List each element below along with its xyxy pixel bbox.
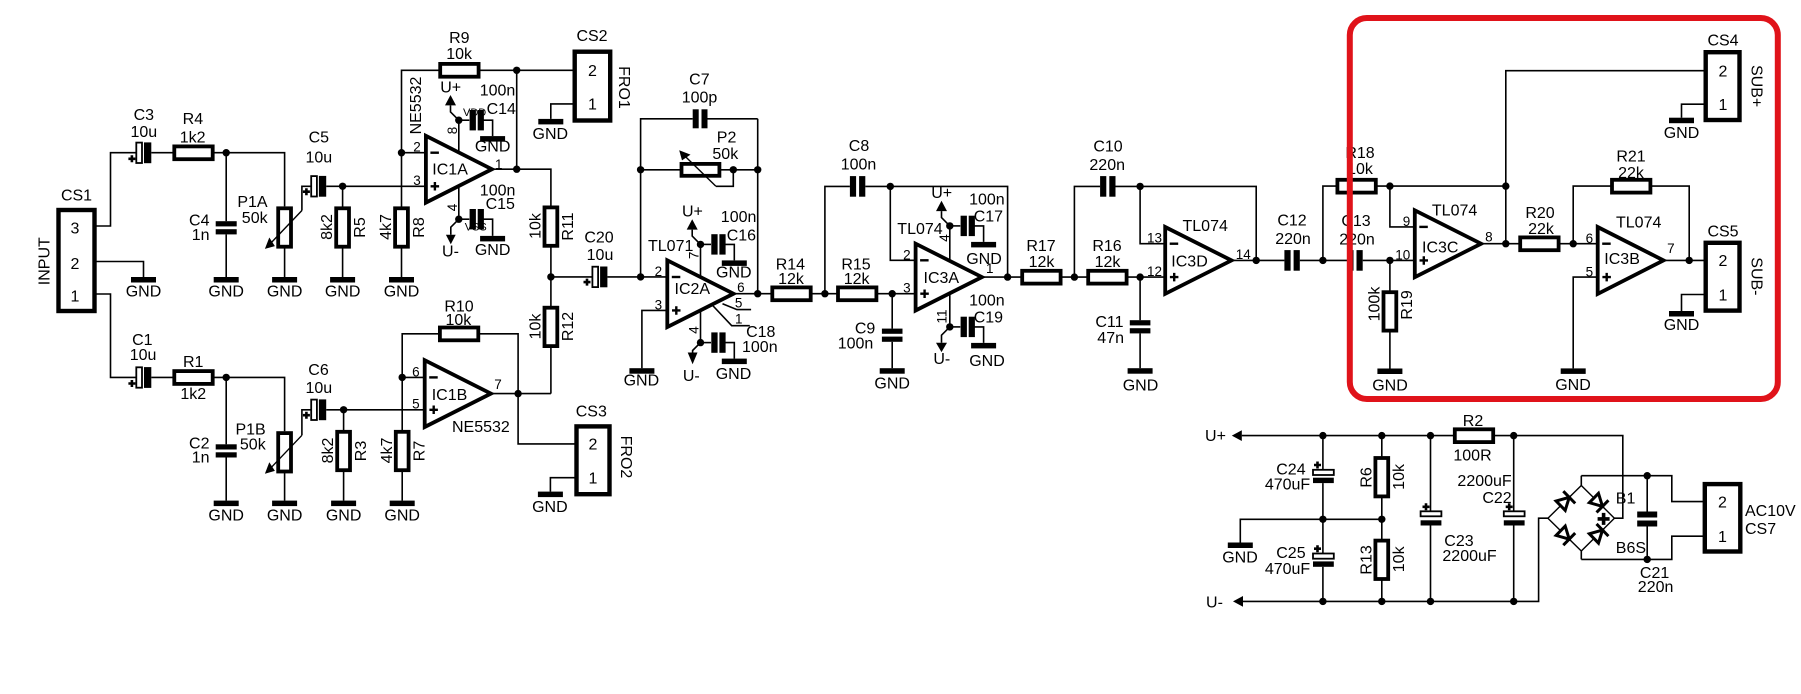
- svg-text:IC3D: IC3D: [1171, 254, 1207, 271]
- node junction C22 top: [1510, 432, 1517, 439]
- node junction C21 top: [1644, 472, 1651, 479]
- svg-text:6: 6: [412, 364, 420, 379]
- svg-text:50k: 50k: [240, 436, 267, 453]
- svg-text:R4: R4: [183, 111, 204, 128]
- node junction R17/R16/C10: [1071, 273, 1078, 280]
- wire IC2A out to R14: [734, 293, 773, 295]
- svg-text:100n: 100n: [838, 336, 874, 353]
- resistor R5 8k2: [319, 186, 369, 277]
- svg-text:R2: R2: [1463, 413, 1484, 430]
- svg-text:C16: C16: [727, 228, 756, 245]
- resistor R15 12k: [838, 256, 876, 300]
- red highlight box: [1350, 18, 1778, 399]
- svg-text:TL074: TL074: [1616, 214, 1661, 231]
- diode D3 left-bottom: [1555, 525, 1575, 546]
- svg-text:470uF: 470uF: [1265, 561, 1311, 578]
- svg-text:R9: R9: [449, 30, 470, 47]
- svg-text:3: 3: [413, 173, 421, 188]
- svg-text:2200uF: 2200uF: [1457, 473, 1511, 490]
- svg-text:C20: C20: [584, 230, 613, 247]
- svg-text:12k: 12k: [778, 271, 805, 288]
- ground C17: [966, 242, 1002, 268]
- op-amp IC3B TL074: [1586, 214, 1675, 294]
- wire IC3B out to CS5: [1664, 259, 1706, 261]
- resistor R1 1k2: [174, 354, 212, 403]
- svg-text:1n: 1n: [192, 227, 210, 244]
- IC1A pin 8 power: [440, 80, 486, 153]
- wire output node vertical: [516, 70, 518, 169]
- svg-text:100p: 100p: [682, 89, 718, 106]
- wire R4 to pot node: [213, 153, 285, 207]
- svg-text:10k: 10k: [528, 313, 545, 340]
- capacitor C25 470uF: [1265, 519, 1334, 601]
- node junction C21 bottom: [1644, 556, 1651, 563]
- IC3A pin 11 power: [933, 293, 953, 368]
- op-amp IC2A TL071: [648, 238, 745, 327]
- connector CS5 SUB-: [1706, 224, 1765, 311]
- svg-text:10u: 10u: [305, 380, 332, 397]
- connector CS1 INPUT: [36, 188, 94, 312]
- node junction C23 bottom: [1427, 598, 1434, 605]
- svg-text:P1A: P1A: [237, 194, 268, 211]
- wire R2 to bridge plus: [1493, 436, 1623, 519]
- resistor R4 1k2: [174, 111, 212, 159]
- ground R19: [1372, 369, 1408, 395]
- wire mid ground rail: [1240, 519, 1382, 542]
- svg-text:U+: U+: [440, 80, 461, 97]
- wire CS1 pin3 to C3: [95, 153, 137, 226]
- op-amp IC3A TL074: [897, 221, 993, 311]
- svg-text:R20: R20: [1525, 205, 1554, 222]
- resistor R16 12k: [1088, 238, 1126, 284]
- svg-text:10k: 10k: [528, 212, 545, 239]
- svg-text:470uF: 470uF: [1265, 477, 1311, 494]
- svg-text:NE5532: NE5532: [452, 419, 510, 436]
- svg-text:C5: C5: [309, 129, 330, 146]
- node junction R14/R15/C8: [821, 290, 828, 297]
- svg-text:1: 1: [735, 311, 743, 326]
- wire R18 to IC3C pin9: [1390, 186, 1415, 227]
- node junction C12/R18: [1319, 257, 1326, 264]
- svg-text:2: 2: [588, 63, 597, 80]
- diode D1 left-top: [1555, 491, 1575, 512]
- svg-text:R7: R7: [412, 441, 429, 462]
- svg-text:12k: 12k: [1095, 254, 1122, 271]
- svg-text:GND: GND: [966, 251, 1002, 268]
- svg-text:8: 8: [445, 127, 460, 135]
- wire C7 right down: [757, 119, 759, 170]
- wire CS2 pin1 to ground: [551, 104, 575, 119]
- svg-text:10k: 10k: [1391, 463, 1408, 490]
- ground CS2: [533, 119, 569, 143]
- resistor R3 8k2: [320, 410, 370, 501]
- svg-text:P2: P2: [717, 130, 737, 147]
- svg-text:CS3: CS3: [576, 404, 607, 421]
- node junction IC3D out: [1253, 257, 1260, 264]
- node junction C23 top: [1427, 432, 1434, 439]
- capacitor C14 100n: [459, 82, 516, 136]
- svg-text:100n: 100n: [742, 339, 778, 356]
- svg-text:C19: C19: [974, 310, 1003, 327]
- svg-text:13: 13: [1147, 231, 1162, 246]
- node junction IC3C out: [1502, 240, 1509, 247]
- svg-text:INPUT: INPUT: [36, 237, 53, 285]
- capacitor C5 10u: [303, 129, 332, 196]
- svg-text:8: 8: [1485, 230, 1493, 245]
- svg-text:1: 1: [1718, 529, 1727, 546]
- wire CS3 pin1 to ground: [550, 478, 576, 492]
- node junction SUB+ vertical crossing: [1502, 182, 1509, 189]
- wire IC1B output: [491, 393, 518, 395]
- capacitor C8 100n: [825, 138, 890, 294]
- svg-text:C14: C14: [487, 101, 516, 118]
- capacitor C19 100n: [950, 293, 1005, 343]
- ground C4: [208, 277, 244, 300]
- svg-text:1: 1: [1719, 287, 1728, 304]
- wire CS1 pin2 to ground: [95, 262, 144, 278]
- svg-text:220n: 220n: [1339, 231, 1375, 248]
- resistor R13 10k: [1358, 519, 1408, 601]
- svg-text:C17: C17: [974, 209, 1003, 226]
- node junction R11/R12/C20: [547, 273, 554, 280]
- svg-text:SUB+: SUB+: [1747, 65, 1764, 107]
- wire C6 to IC1B pin5: [326, 409, 425, 411]
- svg-text:8k2: 8k2: [319, 214, 336, 240]
- svg-text:GND: GND: [208, 283, 244, 300]
- capacitor C23 2200uF: [1421, 436, 1497, 602]
- resistor R9 10k feedback: [402, 30, 575, 153]
- svg-text:GND: GND: [533, 126, 569, 143]
- node junction C22 bottom: [1510, 598, 1517, 605]
- svg-text:2: 2: [1719, 63, 1728, 80]
- svg-text:12k: 12k: [1029, 254, 1056, 271]
- svg-text:TL074: TL074: [1432, 203, 1477, 220]
- resistor R8 4k7: [378, 153, 428, 277]
- svg-text:6: 6: [1586, 231, 1594, 246]
- node junction R6/R13 mid: [1378, 516, 1385, 523]
- svg-text:GND: GND: [384, 283, 420, 300]
- resistor R10 10k feedback: [402, 298, 518, 393]
- svg-text:4: 4: [686, 326, 701, 334]
- svg-text:CS7: CS7: [1745, 521, 1776, 538]
- svg-text:R21: R21: [1616, 149, 1645, 166]
- node junction R5 top: [339, 183, 346, 190]
- capacitor C16 100n: [701, 209, 757, 260]
- wire IC3C out: [1481, 243, 1520, 245]
- resistor R17 12k: [1022, 238, 1060, 284]
- ground CS5: [1664, 311, 1700, 334]
- svg-text:10u: 10u: [130, 347, 157, 364]
- svg-text:FRO2: FRO2: [617, 436, 634, 479]
- node junction IC1A out: [513, 166, 520, 173]
- ground C11: [1123, 368, 1159, 394]
- node junction IC3B out: [1686, 257, 1693, 264]
- capacitor C10 220n: [1074, 138, 1140, 277]
- ground R8: [384, 277, 420, 300]
- svg-text:U-: U-: [442, 243, 459, 260]
- svg-text:GND: GND: [874, 376, 910, 393]
- svg-text:C10: C10: [1093, 138, 1122, 155]
- resistor R20 22k: [1520, 205, 1598, 250]
- wire U+ rail: [1242, 435, 1455, 437]
- svg-text:100n: 100n: [969, 293, 1005, 310]
- ground C15: [475, 236, 511, 259]
- capacitor C6 10u: [303, 362, 332, 420]
- wire out to R11: [517, 169, 551, 207]
- diode D2 top-right: [1588, 492, 1608, 513]
- svg-text:100R: 100R: [1453, 447, 1491, 464]
- svg-text:IC3A: IC3A: [924, 270, 960, 287]
- svg-text:CS4: CS4: [1707, 33, 1738, 50]
- ground IC3B pin5: [1555, 368, 1591, 393]
- node junction P2 left: [637, 166, 644, 173]
- node junction pin6: [399, 374, 406, 381]
- svg-text:C8: C8: [849, 138, 870, 155]
- node junction after R1: [223, 374, 230, 381]
- svg-text:GND: GND: [716, 265, 752, 282]
- resistor R11 10k: [528, 207, 578, 277]
- ground C19: [969, 343, 1005, 370]
- svg-text:4: 4: [937, 234, 952, 242]
- svg-text:GND: GND: [126, 283, 162, 300]
- ground CS1 pin2: [126, 277, 162, 300]
- ground R3: [326, 501, 362, 525]
- svg-text:2200uF: 2200uF: [1442, 548, 1496, 565]
- svg-text:7: 7: [687, 252, 702, 260]
- svg-text:U-: U-: [933, 351, 950, 368]
- svg-text:2: 2: [903, 247, 911, 262]
- wire C1 to R1: [151, 376, 174, 378]
- ground R7: [384, 501, 420, 525]
- ground IC2A pin3: [624, 368, 660, 389]
- svg-text:C15: C15: [486, 196, 515, 213]
- svg-text:10k: 10k: [446, 312, 473, 329]
- svg-text:GND: GND: [267, 283, 303, 300]
- svg-text:GND: GND: [1664, 317, 1700, 334]
- svg-text:1: 1: [588, 97, 597, 114]
- svg-text:GND: GND: [1555, 377, 1591, 394]
- svg-text:22k: 22k: [1528, 221, 1555, 238]
- svg-text:3: 3: [903, 281, 911, 296]
- wire IC3D out: [1232, 259, 1285, 261]
- potentiometer P1B 50k: [235, 410, 311, 501]
- node junction R6 top: [1378, 432, 1385, 439]
- svg-text:10u: 10u: [587, 247, 614, 264]
- svg-text:TL074: TL074: [1183, 218, 1228, 235]
- ground C2: [208, 501, 244, 525]
- svg-text:9: 9: [1403, 214, 1411, 229]
- node junction P2 wiper: [730, 166, 737, 173]
- svg-text:5: 5: [412, 396, 420, 411]
- op-amp IC1A NE5532: [408, 76, 502, 202]
- ground CS4: [1664, 118, 1700, 142]
- svg-text:12k: 12k: [844, 271, 871, 288]
- svg-text:22k: 22k: [1618, 165, 1645, 182]
- svg-text:4: 4: [445, 203, 460, 211]
- svg-text:2: 2: [413, 140, 421, 155]
- wire CS1 pin1 to C1: [95, 294, 137, 377]
- svg-text:10u: 10u: [305, 149, 332, 166]
- svg-text:1k2: 1k2: [180, 386, 206, 403]
- ground C18: [716, 359, 752, 383]
- wire SUB+ to CS4: [1506, 71, 1706, 244]
- svg-text:C12: C12: [1277, 213, 1306, 230]
- node junction C8 right: [887, 183, 894, 190]
- node junction C24/C25 mid: [1319, 516, 1326, 523]
- node junction R18 right: [1386, 182, 1393, 189]
- wire R17 to R16: [1061, 276, 1089, 278]
- ground C14: [475, 136, 511, 155]
- resistor R2 100R: [1453, 413, 1493, 464]
- svg-text:C7: C7: [689, 72, 710, 89]
- wire node to C2: [225, 377, 227, 444]
- svg-text:5: 5: [735, 296, 743, 311]
- connector CS2 FRO1: [575, 28, 632, 121]
- svg-text:50k: 50k: [242, 210, 269, 227]
- svg-text:IC3B: IC3B: [1604, 251, 1640, 268]
- svg-text:7: 7: [494, 377, 502, 392]
- capacitor C24 470uF: [1265, 436, 1334, 520]
- wire C3 to R4: [151, 152, 174, 154]
- svg-text:R6: R6: [1358, 467, 1375, 488]
- IC2A pin 7 power: [682, 204, 704, 277]
- svg-text:IC2A: IC2A: [675, 281, 711, 298]
- node junction R15/C9: [889, 290, 896, 297]
- capacitor C17 100n: [950, 192, 1005, 242]
- svg-text:NE5532: NE5532: [408, 76, 425, 134]
- svg-text:U+: U+: [682, 204, 703, 221]
- resistor R7 4k7: [379, 377, 429, 500]
- wire out to CS3: [518, 394, 576, 444]
- svg-text:10: 10: [1395, 247, 1410, 262]
- svg-text:12: 12: [1147, 264, 1162, 279]
- svg-text:10k: 10k: [446, 46, 473, 63]
- svg-text:1: 1: [71, 288, 80, 305]
- ground C9: [874, 368, 910, 392]
- svg-text:100n: 100n: [480, 82, 516, 99]
- wire IC1A pin2 net: [402, 152, 426, 154]
- wire U- rail: [1243, 518, 1548, 601]
- svg-text:C3: C3: [134, 107, 155, 124]
- svg-text:R8: R8: [411, 217, 428, 238]
- resistor R18 10k: [1323, 145, 1506, 260]
- svg-text:R13: R13: [1358, 545, 1375, 574]
- svg-text:2: 2: [71, 256, 80, 273]
- capacitor C9 100n: [838, 294, 903, 369]
- connector CS3 FRO2: [576, 404, 634, 495]
- wire IC1B pin6 net: [402, 376, 425, 378]
- svg-text:220n: 220n: [1638, 579, 1674, 596]
- svg-text:6: 6: [737, 280, 745, 295]
- capacitor C7 100p: [682, 72, 758, 129]
- ground PSU mid rail: [1222, 543, 1258, 567]
- svg-text:11: 11: [934, 309, 949, 323]
- IC2A pin 5 stub: [723, 296, 752, 311]
- capacitor C1 10u: [128, 332, 156, 388]
- node junction R20/R21: [1570, 240, 1577, 247]
- svg-text:B6S: B6S: [1616, 540, 1646, 557]
- node junction C10 right: [1136, 183, 1143, 190]
- svg-text:C22: C22: [1482, 490, 1511, 507]
- svg-text:47n: 47n: [1097, 330, 1124, 347]
- node junction R16/C11: [1136, 273, 1143, 280]
- svg-text:220n: 220n: [1275, 231, 1311, 248]
- svg-text:GND: GND: [384, 508, 420, 525]
- svg-text:8k2: 8k2: [320, 438, 337, 464]
- capacitor C22 2200uF: [1457, 436, 1524, 602]
- svg-text:C13: C13: [1341, 213, 1370, 230]
- svg-text:GND: GND: [1664, 125, 1700, 142]
- wire C8 to IC3A pin2: [890, 186, 915, 260]
- svg-text:R17: R17: [1026, 238, 1055, 255]
- ground R5: [325, 277, 361, 300]
- svg-text:C6: C6: [308, 362, 329, 379]
- ground C16: [716, 260, 752, 281]
- capacitor C13 220n: [1339, 213, 1415, 271]
- svg-text:2: 2: [655, 264, 663, 279]
- node junction R9/CS2: [513, 67, 520, 74]
- svg-text:R1: R1: [183, 354, 204, 371]
- wire IC3A out: [982, 276, 1022, 278]
- capacitor C4 1n: [189, 213, 237, 244]
- svg-text:R12: R12: [560, 312, 577, 341]
- wire bridge bottom to C21/CS7 pin1: [1581, 536, 1705, 559]
- svg-text:FRO1: FRO1: [615, 66, 632, 109]
- IC3A pin 4 power: [931, 185, 953, 261]
- svg-text:SUB-: SUB-: [1747, 257, 1764, 295]
- bridge rectifier B1 B6S: [1548, 476, 1646, 560]
- svg-text:GND: GND: [475, 139, 511, 156]
- svg-text:2: 2: [589, 437, 598, 454]
- svg-text:R19: R19: [1399, 290, 1416, 319]
- svg-text:GND: GND: [1372, 378, 1408, 395]
- svg-text:U+: U+: [931, 185, 952, 202]
- diode D4 bottom-right: [1588, 524, 1608, 545]
- svg-text:U+: U+: [1205, 428, 1226, 445]
- svg-text:4k7: 4k7: [378, 214, 395, 240]
- resistor R14 12k: [772, 256, 810, 300]
- svg-text:10k: 10k: [1391, 545, 1408, 572]
- node junction C13 right: [1386, 257, 1393, 264]
- wire C8 node to IC3A out: [890, 186, 1007, 277]
- svg-text:GND: GND: [325, 283, 361, 300]
- svg-text:U-: U-: [683, 368, 700, 385]
- svg-text:100n: 100n: [841, 156, 877, 173]
- capacitor C18 100n: [701, 324, 778, 359]
- wire R16 to IC3D pin12: [1127, 276, 1166, 278]
- op-amp IC3D TL074: [1147, 218, 1251, 294]
- svg-text:R11: R11: [560, 212, 577, 240]
- svg-text:C25: C25: [1276, 545, 1305, 562]
- node junction R13 bottom: [1378, 598, 1385, 605]
- wire C2 to ground: [225, 458, 227, 501]
- svg-text:GND: GND: [326, 508, 362, 525]
- svg-text:R5: R5: [352, 217, 369, 238]
- resistor R19 100k: [1367, 260, 1417, 368]
- svg-text:100n: 100n: [721, 209, 757, 226]
- svg-text:GND: GND: [969, 353, 1005, 370]
- svg-text:R16: R16: [1092, 238, 1121, 255]
- svg-text:GND: GND: [475, 242, 511, 259]
- IC2A pin 4 power: [683, 310, 704, 385]
- svg-text:AC10V: AC10V: [1745, 503, 1796, 520]
- svg-text:1: 1: [1719, 97, 1728, 114]
- node junction IC2A out: [754, 290, 761, 297]
- svg-text:IC3C: IC3C: [1422, 240, 1458, 257]
- svg-text:GND: GND: [1222, 550, 1258, 567]
- wire CS4 pin1 to ground: [1682, 104, 1706, 118]
- node junction IC1B out: [514, 390, 521, 397]
